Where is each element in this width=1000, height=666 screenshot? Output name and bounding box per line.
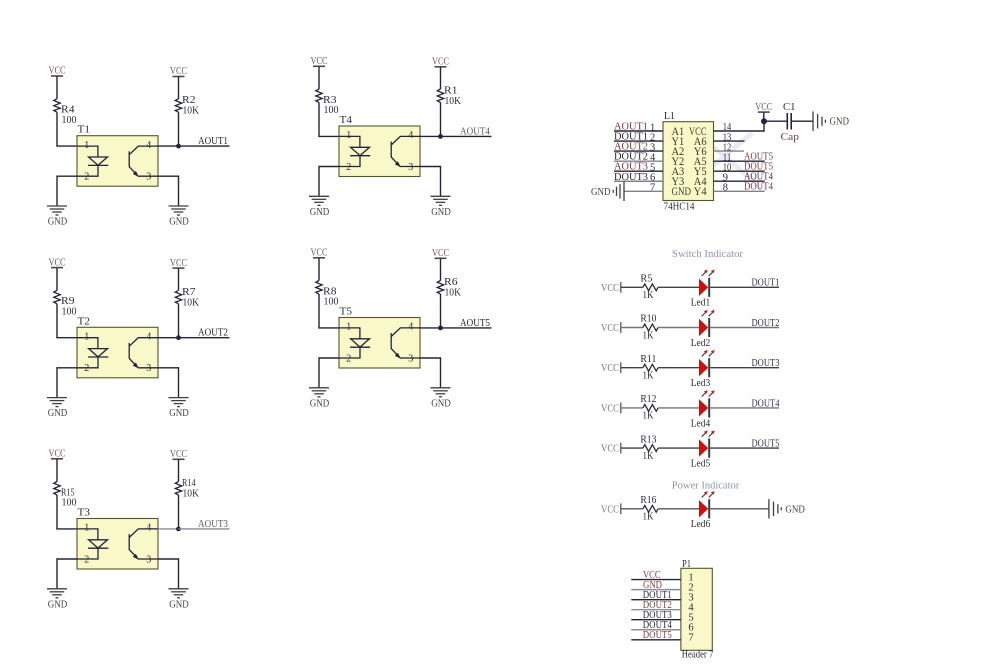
wire VCC to R1	[440, 67, 442, 89]
wire R16 to Led6	[658, 508, 699, 510]
resistor R14	[175, 482, 181, 496]
svg-text:100: 100	[324, 297, 339, 308]
VCC port bracket (Led4 row)	[620, 403, 622, 414]
T1 phototransistor (internal)	[129, 146, 158, 176]
svg-text:1: 1	[346, 322, 351, 333]
svg-text:7: 7	[688, 633, 693, 644]
svg-text:R16: R16	[640, 495, 656, 506]
wire node AOUT3	[179, 528, 230, 530]
wire VCC to R11	[621, 367, 643, 369]
svg-text:GND: GND	[169, 217, 189, 228]
svg-text:GND: GND	[48, 217, 68, 228]
svg-text:Led5: Led5	[691, 459, 711, 470]
VCC port bracket (Led5 row)	[620, 443, 622, 454]
ground (L1 pin 7)	[623, 182, 625, 201]
capacitor C1	[786, 113, 788, 130]
svg-text:1: 1	[84, 332, 89, 343]
wire L1 pin 8 to net DOUT4	[714, 190, 765, 192]
Led4 light arrows	[702, 393, 713, 397]
svg-text:DOUT5: DOUT5	[752, 439, 780, 450]
svg-text:GND: GND	[830, 117, 850, 128]
wire VCC to R8	[318, 258, 320, 281]
svg-text:GND: GND	[48, 408, 68, 419]
optocoupler T1 body	[77, 136, 158, 187]
svg-text:Power Indicator: Power Indicator	[672, 481, 740, 492]
wire L1 pin 9 to net AOUT4	[714, 180, 765, 182]
svg-text:AOUT2: AOUT2	[198, 328, 228, 339]
svg-text:100: 100	[62, 498, 77, 509]
junction node VCC/C1	[761, 118, 767, 124]
svg-text:GND: GND	[310, 398, 330, 409]
wire Led5 to DOUT5	[710, 447, 779, 449]
wire T2 pin 3 to ground	[158, 367, 179, 369]
wire node AOUT2	[179, 337, 230, 339]
wire VCC to R14	[178, 459, 180, 481]
wire Led4 to DOUT4	[710, 407, 779, 409]
wire T5 pin 3 to ground	[420, 357, 441, 359]
VCC port bracket (Led3 row)	[620, 362, 622, 373]
wire VCC to R10	[621, 327, 643, 329]
svg-text:VCC: VCC	[601, 403, 619, 414]
wire VCC to R6	[440, 258, 442, 280]
wire VCC to R16	[621, 508, 643, 510]
wire node AOUT1	[179, 145, 230, 147]
svg-text:GND: GND	[672, 184, 692, 198]
wire R8 to T5 pin 1	[318, 294, 320, 328]
svg-text:VCC: VCC	[601, 323, 619, 334]
wire R7 to node AOUT2	[178, 304, 180, 338]
wire T1 pin 4 to node AOUT1	[158, 145, 179, 147]
svg-text:DOUT3: DOUT3	[614, 172, 648, 183]
svg-text:C1: C1	[783, 102, 796, 113]
wire L1 pin 10 to net DOUT5	[714, 170, 765, 172]
svg-text:GND: GND	[169, 599, 189, 610]
svg-text:GND: GND	[785, 504, 805, 515]
junction node AOUT5	[438, 326, 443, 331]
wire R1 to node AOUT4	[440, 103, 442, 137]
wire node AOUT4	[441, 135, 492, 137]
wire VCC to R4	[56, 76, 58, 99]
svg-text:VCC: VCC	[755, 102, 772, 113]
resistor R10	[643, 324, 658, 331]
svg-text:3: 3	[146, 363, 151, 374]
svg-text:Led4: Led4	[691, 418, 711, 429]
svg-text:100: 100	[62, 115, 77, 126]
svg-text:3: 3	[146, 172, 151, 183]
svg-text:T1: T1	[78, 125, 91, 136]
wire R9 to T2 pin 1	[56, 304, 58, 338]
ground (left of T5)	[309, 387, 329, 389]
svg-text:1: 1	[84, 523, 89, 534]
T4 phototransistor (internal)	[391, 136, 420, 166]
wire R6 to node AOUT5	[440, 294, 442, 328]
ground (right of T2)	[169, 397, 189, 399]
svg-text:DOUT1: DOUT1	[752, 278, 780, 289]
optocoupler T4 body	[339, 126, 420, 177]
ground (left of T4)	[309, 195, 329, 197]
wire net VCC to P1 pin 1	[631, 579, 681, 581]
LED Led1	[699, 279, 708, 296]
svg-text:7: 7	[650, 183, 655, 194]
T5 LED (internal)	[339, 328, 370, 358]
svg-text:R8: R8	[323, 286, 337, 297]
ground (right of T5)	[431, 387, 451, 389]
Led5 light arrows	[702, 433, 713, 437]
wire VCC to R13	[621, 447, 643, 449]
svg-text:2: 2	[346, 353, 351, 364]
wire Led1 to DOUT1	[710, 286, 779, 288]
wire T4 pin 4 to node AOUT4	[420, 135, 441, 137]
svg-text:GND: GND	[169, 408, 189, 419]
svg-text:GND: GND	[48, 599, 68, 610]
wire net DOUT3 to P1 pin 5	[631, 619, 681, 621]
svg-text:R13: R13	[640, 434, 656, 445]
LED Led6	[699, 500, 708, 517]
wire net DOUT3 to L1 pin 6	[614, 180, 663, 182]
wire T5 pin 2 to ground	[319, 357, 339, 359]
svg-text:10K: 10K	[183, 489, 200, 500]
svg-text:1K: 1K	[643, 411, 655, 422]
resistor R9	[54, 290, 60, 304]
svg-text:10K: 10K	[183, 297, 200, 308]
svg-text:GND: GND	[591, 187, 611, 198]
T2 LED (internal)	[77, 338, 108, 368]
svg-text:R12: R12	[640, 394, 656, 405]
svg-text:Cap: Cap	[781, 132, 800, 143]
svg-text:DOUT4: DOUT4	[752, 398, 781, 409]
svg-text:Led1: Led1	[691, 298, 711, 309]
svg-text:3: 3	[408, 162, 413, 173]
wire net DOUT2 to L1 pin 4	[614, 160, 663, 162]
svg-text:R1: R1	[444, 86, 458, 97]
svg-text:74HC14: 74HC14	[664, 202, 696, 213]
wire T1 pin 3 to ground	[158, 175, 179, 177]
svg-text:DOUT4: DOUT4	[744, 182, 774, 193]
T3 phototransistor (internal)	[129, 529, 158, 559]
wire L1 pin 12 stub	[714, 150, 745, 152]
wire VCC to R12	[621, 407, 643, 409]
wire T5 pin 4 to node AOUT5	[420, 327, 441, 329]
wire net DOUT1 to L1 pin 2	[614, 140, 663, 142]
svg-text:Led3: Led3	[691, 378, 711, 389]
svg-text:VCC: VCC	[601, 504, 619, 515]
wire R14 to node AOUT3	[178, 495, 180, 529]
ground (right of T1)	[169, 205, 189, 207]
svg-text:4: 4	[146, 523, 151, 534]
wire net DOUT1 to P1 pin 3	[631, 599, 681, 601]
svg-text:1: 1	[346, 130, 351, 141]
svg-text:GND: GND	[310, 207, 330, 218]
wire VCC to R7	[178, 268, 180, 290]
Led3 light arrows	[702, 353, 713, 357]
svg-text:2: 2	[84, 363, 89, 374]
svg-text:L1: L1	[664, 111, 675, 122]
optocoupler T3 body	[77, 519, 158, 570]
svg-text:R6: R6	[444, 277, 458, 288]
wire VCC to R9	[56, 268, 58, 291]
Led2 light arrows	[702, 313, 713, 317]
junction node AOUT1	[176, 144, 181, 149]
svg-text:DOUT5: DOUT5	[643, 630, 672, 641]
svg-text:VCC: VCC	[311, 248, 328, 259]
svg-text:VCC: VCC	[49, 449, 66, 460]
svg-text:DOUT2: DOUT2	[752, 318, 780, 329]
svg-text:1K: 1K	[643, 371, 655, 382]
ground (right of T4)	[431, 195, 451, 197]
wire R2 to node AOUT1	[178, 112, 180, 146]
resistor R1	[437, 89, 443, 103]
wire L1 pin 11 to net AOUT5	[714, 160, 765, 162]
LED Led2	[699, 319, 708, 336]
resistor R4	[54, 99, 60, 113]
svg-text:100: 100	[324, 105, 339, 116]
svg-text:VCC: VCC	[601, 444, 619, 455]
svg-text:1K: 1K	[643, 330, 655, 341]
resistor R6	[437, 281, 443, 295]
T2 phototransistor (internal)	[129, 338, 158, 368]
svg-text:1K: 1K	[643, 512, 655, 523]
ground (left of T1)	[47, 205, 67, 207]
wire R3 to T4 pin 1	[318, 103, 320, 137]
svg-text:R3: R3	[323, 95, 337, 106]
wire T2 pin 2 to ground	[57, 367, 77, 369]
resistor R5	[643, 284, 658, 291]
svg-text:R10: R10	[640, 314, 656, 325]
svg-text:VCC: VCC	[311, 56, 328, 67]
svg-text:AOUT5: AOUT5	[460, 318, 490, 329]
svg-text:VCC: VCC	[170, 66, 187, 77]
ground (left of T2)	[47, 397, 67, 399]
resistor R7	[175, 290, 181, 304]
svg-text:AOUT4: AOUT4	[460, 126, 491, 137]
wire net AOUT3 to L1 pin 5	[614, 170, 663, 172]
T5 phototransistor (internal)	[391, 328, 420, 358]
header P1 body	[681, 568, 712, 650]
svg-text:VCC: VCC	[601, 283, 619, 294]
T3 LED (internal)	[77, 529, 108, 559]
wire net DOUT2 to P1 pin 4	[631, 609, 681, 611]
svg-text:R7: R7	[182, 287, 196, 298]
svg-text:10K: 10K	[183, 106, 200, 117]
svg-text:VCC: VCC	[432, 57, 449, 68]
resistor R2	[175, 99, 181, 113]
wire R5 to Led1	[658, 286, 699, 288]
optocoupler T5 body	[339, 318, 420, 369]
svg-text:R2: R2	[182, 95, 196, 106]
svg-text:R9: R9	[61, 296, 75, 307]
svg-text:VCC: VCC	[170, 449, 187, 460]
svg-text:R5: R5	[640, 274, 652, 285]
wire L1 pin 7 to ground	[624, 190, 663, 192]
wire VCC to R15	[56, 459, 58, 482]
svg-text:R4: R4	[61, 105, 75, 116]
svg-text:GND: GND	[431, 398, 451, 409]
wire L1 pin 14 to VCC node	[714, 130, 765, 132]
VCC port bracket (Led2 row)	[620, 322, 622, 333]
svg-text:R11: R11	[640, 354, 656, 365]
LED Led5	[699, 439, 708, 456]
wire net GND to P1 pin 2	[631, 589, 681, 591]
resistor R13	[643, 445, 658, 452]
svg-text:R14: R14	[182, 478, 196, 489]
svg-text:Switch Indicator: Switch Indicator	[672, 249, 744, 260]
Led1 light arrows	[702, 272, 713, 276]
svg-text:4: 4	[146, 332, 151, 343]
T4 LED (internal)	[339, 136, 370, 166]
junction node AOUT4	[438, 134, 443, 139]
resistor R8	[316, 281, 322, 295]
svg-text:2: 2	[84, 554, 89, 565]
ground (left of T3)	[47, 588, 67, 590]
svg-text:VCC: VCC	[49, 257, 66, 268]
wire net DOUT5 to P1 pin 7	[631, 639, 681, 641]
svg-text:4: 4	[408, 130, 413, 141]
svg-text:1K: 1K	[643, 451, 655, 462]
wire L1 pin 13 stub	[714, 140, 745, 142]
svg-text:Led6: Led6	[691, 519, 711, 530]
svg-text:VCC: VCC	[170, 258, 187, 269]
svg-text:AOUT3: AOUT3	[198, 519, 228, 530]
svg-text:T4: T4	[340, 115, 353, 126]
svg-text:VCC: VCC	[49, 66, 66, 77]
wire net DOUT4 to P1 pin 6	[631, 629, 681, 631]
wire R11 to Led3	[658, 367, 699, 369]
svg-text:100: 100	[62, 307, 77, 318]
VCC port bracket (Led1 row)	[620, 282, 622, 293]
wire node AOUT5	[441, 327, 492, 329]
wire VCC to R5	[621, 286, 643, 288]
wire T4 pin 3 to ground	[420, 166, 441, 168]
svg-text:2: 2	[346, 162, 351, 173]
LED Led3	[699, 359, 708, 376]
wire R13 to Led5	[658, 447, 699, 449]
LED Led4	[699, 399, 708, 416]
svg-text:1: 1	[84, 140, 89, 151]
ground (C1)	[812, 112, 814, 131]
svg-text:10K: 10K	[445, 96, 462, 107]
resistor R12	[643, 405, 658, 412]
optocoupler T2 body	[77, 327, 158, 378]
resistor R15	[54, 482, 60, 496]
ground (right of T3)	[169, 588, 189, 590]
junction node AOUT2	[176, 335, 181, 340]
svg-text:DOUT3: DOUT3	[752, 358, 780, 369]
svg-text:T5: T5	[340, 307, 353, 318]
wire T3 pin 4 to node AOUT3	[158, 528, 179, 530]
wire R12 to Led4	[658, 407, 699, 409]
svg-text:2: 2	[84, 172, 89, 183]
wire node to C1	[764, 120, 787, 122]
wire VCC to R2	[178, 77, 180, 99]
svg-text:Led2: Led2	[691, 338, 711, 349]
svg-text:10K: 10K	[445, 288, 462, 299]
ground (power indicator)	[768, 499, 770, 518]
T1 LED (internal)	[77, 146, 108, 176]
wire R10 to Led2	[658, 327, 699, 329]
wire net AOUT1 to L1 pin 1	[614, 130, 663, 132]
svg-text:4: 4	[408, 322, 413, 333]
wire net AOUT2 to L1 pin 3	[614, 150, 663, 152]
svg-text:3: 3	[408, 353, 413, 364]
wire Led6 to ground	[710, 508, 769, 510]
wire VCC to R3	[318, 67, 320, 90]
wire Led2 to DOUT2	[710, 327, 779, 329]
svg-text:R15: R15	[61, 487, 75, 498]
wire T4 pin 2 to ground	[319, 166, 339, 168]
svg-text:T2: T2	[78, 316, 91, 327]
svg-text:VCC: VCC	[432, 248, 449, 259]
svg-text:VCC: VCC	[601, 363, 619, 374]
svg-text:Header 7: Header 7	[682, 650, 714, 661]
wire T1 pin 2 to ground	[57, 175, 77, 177]
wire T2 pin 4 to node AOUT2	[158, 337, 179, 339]
wire C1 to ground	[791, 120, 813, 122]
Led6 light arrows	[702, 494, 713, 498]
svg-text:1K: 1K	[643, 290, 655, 301]
svg-text:AOUT1: AOUT1	[198, 136, 228, 147]
IC L1 body (74HC14)	[663, 122, 714, 201]
wire Led3 to DOUT3	[710, 367, 779, 369]
svg-text:3: 3	[146, 554, 151, 565]
svg-text:T3: T3	[78, 508, 91, 519]
svg-text:4: 4	[146, 140, 151, 151]
wire T3 pin 3 to ground	[158, 558, 179, 560]
wire R4 to T1 pin 1	[56, 112, 58, 146]
wire T3 pin 2 to ground	[57, 558, 77, 560]
svg-text:GND: GND	[431, 207, 451, 218]
wire VCC port down	[763, 112, 765, 121]
resistor R16	[643, 505, 658, 512]
resistor R3	[316, 89, 322, 103]
resistor R11	[643, 364, 658, 371]
junction node AOUT3	[176, 527, 181, 532]
svg-text:Y4: Y4	[694, 184, 707, 198]
watermark (faint)	[688, 133, 762, 188]
VCC port bracket (Led6 row)	[620, 503, 622, 514]
wire R15 to T3 pin 1	[56, 495, 58, 529]
